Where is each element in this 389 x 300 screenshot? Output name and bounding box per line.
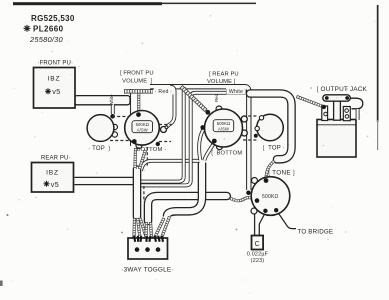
svg-text:C: C [255, 241, 260, 248]
svg-text:0.022µF: 0.022µF [247, 252, 269, 258]
svg-text:25580/30: 25580/30 [29, 35, 64, 44]
wire red corner down to front volume right lug [167, 87, 175, 127]
front volume right lug bracket [161, 127, 167, 133]
to-bridge pointer line [277, 212, 296, 229]
rear volume top-view holes [259, 116, 263, 120]
output jack center stem [334, 100, 341, 120]
svg-text:❲OUTPUT JACK: ❲OUTPUT JACK [315, 86, 368, 93]
svg-text:BOTTOM ·: BOTTOM · [137, 147, 167, 153]
svg-text:Red: Red [214, 93, 219, 102]
shielded wires tube A bottom to toggle [132, 218, 136, 238]
star symbol title [24, 25, 31, 32]
shielded wires tube C bottom to toggle [144, 222, 148, 238]
left edge tick mark [0, 281, 3, 287]
thin vertical line through front volume [130, 89, 132, 146]
capacitor C box [252, 236, 264, 250]
svg-text:RG525,530: RG525,530 [31, 14, 75, 23]
svg-text:❲REAR PU: ❲REAR PU [207, 71, 238, 78]
toggle terminal dots [135, 247, 140, 252]
shielded wavy wire from tube F to tone lugs [230, 198, 256, 201]
svg-text:❲ BOTTOM: ❲ BOTTOM [210, 150, 243, 157]
star symbol rear box [44, 181, 50, 187]
svg-text:❲TONE❳: ❲TONE❳ [267, 170, 297, 177]
svg-text:500KΩ: 500KΩ [217, 121, 230, 126]
shielded wires tube E end to toggle [155, 218, 165, 238]
svg-text:White: White [109, 94, 114, 106]
wire from cable end down to front volume top lug [111, 104, 115, 114]
front volume top-view lug dot [110, 114, 115, 119]
shielded strands from front volume down into tube A [133, 148, 137, 169]
front volume pot bottom view [125, 111, 160, 146]
3-way toggle switch body [128, 238, 168, 259]
wire V1 descending then left to toggle [139, 87, 184, 182]
toggle wire entry tips [134, 236, 163, 242]
front pickup box [34, 68, 76, 109]
svg-text:v5: v5 [52, 87, 60, 96]
svg-text:A/SW: A/SW [218, 126, 229, 131]
output jack top capsule bar [323, 95, 351, 101]
front volume pot top-view tab lugs [112, 124, 117, 129]
shielded branch to jack left tab [297, 97, 323, 107]
front volume bottom-view lug dots [136, 112, 141, 117]
front volume pot dashed links [112, 116, 129, 118]
output jack right hook contact [350, 98, 363, 109]
svg-text:v5: v5 [51, 180, 59, 189]
output jack body [317, 120, 356, 158]
svg-text:TO BRIDGE: TO BRIDGE [298, 229, 334, 236]
svg-text:VOLUME ❳: VOLUME ❳ [122, 78, 154, 85]
svg-text:❲ TOP ·: ❲ TOP · [261, 145, 285, 152]
tone pot [251, 177, 290, 216]
svg-text:(223): (223) [251, 258, 265, 264]
tone pot tab bumps [252, 178, 258, 184]
rear volume pot bottom view [205, 109, 243, 147]
svg-text:A/SW: A/SW [137, 127, 148, 132]
svg-text:REAR PU·: REAR PU· [41, 156, 70, 162]
rear pickup box [32, 163, 74, 193]
rear volume dashed links [243, 115, 257, 117]
svg-text:·3WAY TOGGLE·: ·3WAY TOGGLE· [121, 267, 173, 274]
rear pickup cable tube [75, 177, 137, 186]
vertical sleeve tube A [133, 170, 142, 217]
rear volume right bracket lugs [241, 116, 247, 122]
tube E S-sleeve from rear volume to toggle [167, 163, 202, 217]
svg-text:IBZ: IBZ [46, 170, 59, 177]
output jack wide tube from top run [250, 94, 292, 160]
svg-text:PL2660: PL2660 [33, 25, 64, 34]
svg-text:500KΩ: 500KΩ [262, 194, 278, 200]
svg-text:❲White❳: ❲White❳ [224, 89, 247, 95]
svg-text:· Red ·: · Red · [155, 89, 172, 95]
front volume value box 500K A/SW [132, 121, 153, 133]
wire V2 from jack run descending then left [139, 93, 252, 186]
border frame top bar [13, 2, 162, 5]
svg-text:VOLUME❳: VOLUME❳ [207, 78, 237, 85]
wire tone lugs to capacitor legs [254, 214, 256, 236]
rear volume pot bottom-view tab bumps [216, 106, 222, 112]
svg-text:·FRONT PU·: ·FRONT PU· [38, 61, 74, 67]
shielded cable top run from front cable to rear volume lug [124, 89, 153, 93]
tube F horizontal sleeve to tone [148, 196, 227, 221]
rear volume lug dots [205, 110, 210, 115]
rear volume value box [213, 120, 234, 132]
shielded wire from tube end down to tone top lug [266, 161, 275, 179]
svg-text:500KΩ: 500KΩ [136, 122, 149, 127]
wire from tube C top curving right to tube E top [141, 161, 200, 171]
output jack left tab [322, 106, 328, 121]
stray specks [7, 214, 9, 216]
svg-text:❲FRONT PU: ❲FRONT PU [118, 70, 153, 77]
output jack right tab [343, 107, 350, 121]
border frame right line [377, 5, 379, 122]
front volume bottom-view tab bump [136, 143, 142, 149]
shielded drop to front volume bottom-view top lug [137, 93, 140, 113]
tone pot lug dots [264, 178, 269, 183]
svg-text:· TOP ❳: · TOP ❳ [88, 145, 112, 152]
wire top run pair1 (front volume to tone drop) [150, 87, 249, 190]
star symbol front box [45, 88, 51, 94]
front pickup cable tube [75, 96, 131, 105]
front volume pot top view [87, 115, 114, 142]
thin wires from rear volume lugs into tube E [199, 130, 203, 161]
svg-text:IBZ: IBZ [48, 76, 61, 83]
dashed line beside tube A [143, 186, 145, 202]
dashed pot shaft line front volume [146, 147, 148, 166]
rear volume pot top view [257, 114, 284, 141]
jack cable lug dot [322, 105, 326, 109]
wire from hook contact down to body [356, 109, 360, 120]
